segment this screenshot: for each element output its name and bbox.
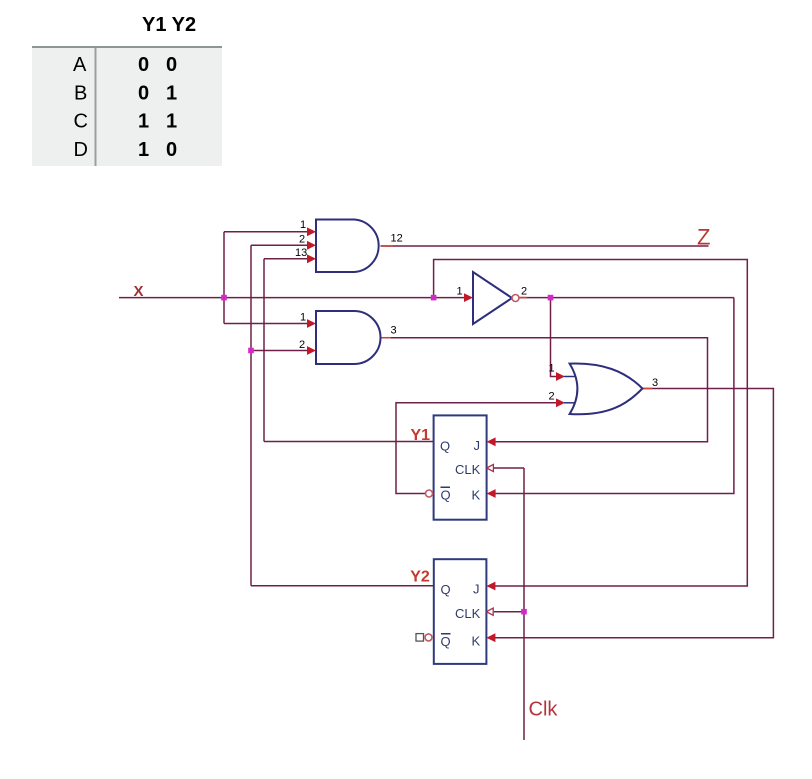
svg-text:Y1 Y2: Y1 Y2	[142, 14, 196, 36]
arrow Y1 J	[487, 437, 496, 446]
svg-text:Q: Q	[441, 582, 451, 597]
OR pin2 blue stub	[564, 402, 577, 404]
svg-text:Q: Q	[440, 439, 450, 454]
flip-flop Y1 Qbar bubble	[426, 490, 433, 497]
wire AND1 output to Z	[381, 245, 709, 247]
inverter U3 bubble	[512, 295, 519, 302]
wire inverter output	[519, 297, 734, 299]
node inverter output junction	[548, 295, 554, 301]
AND1 output red stub	[381, 245, 393, 247]
svg-text:3: 3	[652, 377, 658, 389]
state table column divider	[95, 48, 97, 166]
wire OR output to Y2 K	[494, 389, 773, 638]
svg-text:K: K	[472, 634, 481, 649]
svg-text:13: 13	[295, 247, 307, 259]
arrow Y2 K	[486, 633, 495, 642]
flip-flop Y1 box	[434, 415, 487, 519]
node Y2Q-AND2 junction	[248, 348, 254, 354]
wire Clk vertical	[523, 468, 525, 740]
state table top border	[32, 46, 222, 48]
svg-text:1: 1	[166, 111, 177, 133]
flip-flop Y1 Qbar overline	[441, 487, 451, 489]
svg-text:Z: Z	[697, 225, 710, 250]
svg-text:J: J	[473, 582, 480, 597]
svg-text:1: 1	[549, 363, 555, 375]
svg-text:1: 1	[138, 139, 149, 161]
AND2 output red stub	[381, 337, 391, 339]
svg-text:Q: Q	[441, 488, 451, 503]
flip-flop Y2 CLK open arrow	[486, 608, 493, 615]
arrow OR pin1	[556, 372, 565, 381]
svg-text:0: 0	[166, 139, 177, 161]
inverter U3 triangle	[473, 272, 512, 324]
svg-text:Y1: Y1	[411, 427, 431, 444]
wire inverter branch to OR pin1	[551, 298, 557, 377]
svg-text:0: 0	[166, 54, 177, 76]
wire Y1 Q output	[264, 441, 434, 443]
wire X branch vertical x=224	[223, 232, 225, 324]
svg-text:Clk: Clk	[529, 699, 559, 721]
svg-text:B: B	[74, 82, 87, 104]
svg-text:CLK: CLK	[455, 462, 481, 477]
wire AND1 pin1	[224, 231, 309, 233]
node Clk junction	[521, 609, 527, 615]
wire Y2 Q output	[251, 585, 434, 587]
wire Y2Q vertical x=251	[250, 245, 252, 586]
arrow inverter input	[464, 293, 473, 302]
node X-AND junction	[221, 295, 227, 301]
svg-text:0: 0	[138, 82, 149, 104]
svg-text:1: 1	[138, 111, 149, 133]
wire X to Y2 J riser	[434, 260, 748, 587]
svg-text:CLK: CLK	[455, 606, 481, 621]
pin number labels	[295, 219, 658, 403]
svg-text:J: J	[474, 438, 481, 453]
flip-flop Y1 pin labels	[440, 438, 481, 503]
or-gate U4	[570, 363, 643, 414]
arrow AND1 pin13	[307, 254, 316, 263]
svg-text:1: 1	[166, 82, 177, 104]
svg-text:X: X	[134, 283, 144, 300]
wire Y1 Qbar to OR pin2	[396, 403, 556, 494]
wire X input horizontal	[119, 297, 465, 299]
arrow Y2 J	[486, 582, 495, 591]
arrow Y1 K	[487, 489, 496, 498]
arrow AND1 pin1	[307, 227, 316, 236]
svg-text:2: 2	[299, 234, 305, 246]
node X-Y2J junction	[431, 295, 437, 301]
inverter output red stub	[519, 297, 527, 299]
wire inverter to Y1 K	[494, 298, 734, 494]
flip-flop Y2 Qbar overline	[441, 633, 451, 635]
state table background	[32, 48, 222, 166]
OR output red stub	[643, 388, 652, 390]
wire AND2 output to Y1 J	[381, 338, 708, 442]
svg-text:Y2: Y2	[410, 569, 430, 586]
svg-text:3: 3	[391, 325, 397, 337]
flip-flop Y2 Qbar bubble	[425, 634, 432, 641]
svg-text:2: 2	[299, 339, 305, 351]
wire AND1 pin13	[264, 258, 309, 260]
flip-flop Y2 pin labels	[441, 582, 481, 650]
svg-text:C: C	[74, 111, 88, 133]
flip-flop Y2 unconnected square	[416, 634, 424, 642]
arrow AND2 pin2	[307, 346, 316, 355]
svg-text:1: 1	[300, 219, 306, 231]
wire Y1Q vertical x=264	[263, 259, 265, 442]
OR pin1 blue stub	[564, 376, 578, 378]
wire Y2 CLK	[494, 611, 524, 613]
svg-text:12: 12	[391, 233, 403, 245]
svg-text:0: 0	[138, 54, 149, 76]
svg-text:2: 2	[549, 391, 555, 403]
svg-text:1: 1	[457, 286, 463, 298]
arrow AND2 pin1	[307, 319, 316, 328]
arrow OR pin2	[556, 398, 565, 407]
wire Y1 CLK	[494, 467, 524, 469]
and-gate U1 (3-input)	[316, 220, 379, 273]
svg-text:1: 1	[300, 312, 306, 324]
wire AND2 pin2	[251, 350, 309, 352]
arrow AND1 pin2	[307, 241, 316, 250]
svg-text:2: 2	[521, 286, 527, 298]
flip-flop Y1 CLK open arrow	[487, 464, 494, 471]
flip-flop Y2 box	[434, 559, 487, 664]
svg-text:K: K	[472, 488, 481, 503]
svg-text:Q: Q	[441, 634, 451, 649]
svg-text:A: A	[73, 54, 87, 76]
and-gate U2 (2-input)	[316, 311, 381, 364]
wire AND1 pin2	[251, 244, 309, 246]
svg-text:D: D	[74, 139, 88, 161]
wire AND2 pin1	[224, 323, 309, 325]
